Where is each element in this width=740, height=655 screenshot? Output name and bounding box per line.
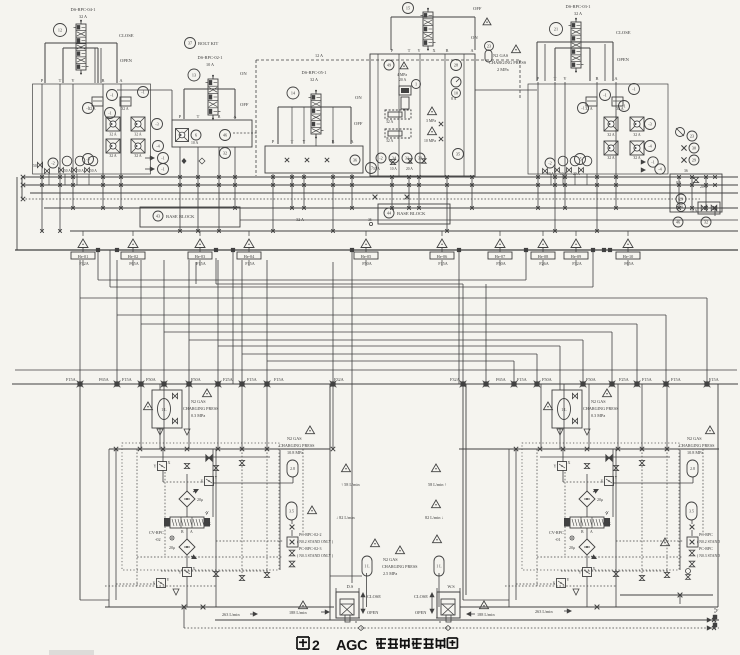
svg-text:F15A: F15A bbox=[438, 261, 448, 266]
svg-text:188 L/min: 188 L/min bbox=[477, 612, 495, 617]
svg-text:CHARGING PRESS: CHARGING PRESS bbox=[583, 406, 619, 411]
svg-text:3.5: 3.5 bbox=[689, 509, 694, 513]
svg-text:B: B bbox=[596, 76, 599, 81]
svg-text:F32A: F32A bbox=[572, 261, 582, 266]
svg-text:OFF: OFF bbox=[240, 102, 249, 107]
svg-text:32 A: 32 A bbox=[386, 120, 394, 124]
svg-text:43: 43 bbox=[156, 214, 160, 219]
svg-text:32 A: 32 A bbox=[310, 77, 318, 82]
svg-text:37: 37 bbox=[188, 41, 192, 46]
svg-text:20μ: 20μ bbox=[197, 497, 203, 502]
svg-text:10 MPa: 10 MPa bbox=[424, 139, 436, 143]
svg-text:OPEN: OPEN bbox=[617, 57, 630, 62]
svg-text:2.8: 2.8 bbox=[690, 467, 695, 471]
svg-text:-02: -02 bbox=[155, 537, 161, 542]
svg-text:F15A: F15A bbox=[709, 377, 720, 382]
svg-text:50 A: 50 A bbox=[77, 169, 84, 173]
svg-text:N2 GAS: N2 GAS bbox=[383, 557, 398, 562]
svg-text:10 A: 10 A bbox=[206, 62, 214, 67]
svg-text:F15A: F15A bbox=[517, 377, 528, 382]
svg-text:F15A: F15A bbox=[274, 377, 285, 382]
svg-text:31: 31 bbox=[405, 156, 409, 161]
svg-text:F26A: F26A bbox=[539, 261, 549, 266]
svg-text:3 MPa: 3 MPa bbox=[426, 119, 436, 123]
svg-text:15: 15 bbox=[406, 6, 410, 11]
svg-text:F15A: F15A bbox=[247, 377, 258, 382]
svg-text:32 A: 32 A bbox=[296, 217, 304, 222]
svg-text:N2 GAS: N2 GAS bbox=[191, 399, 206, 404]
svg-text:OPEN: OPEN bbox=[120, 58, 133, 63]
svg-text:↓ 82 L/min: ↓ 82 L/min bbox=[336, 515, 356, 520]
svg-text:F50A: F50A bbox=[146, 377, 157, 382]
svg-text:2.5 MPa: 2.5 MPa bbox=[383, 571, 397, 576]
svg-text:36: 36 bbox=[684, 169, 688, 173]
svg-text:10 A: 10 A bbox=[191, 141, 199, 145]
svg-text:50: 50 bbox=[33, 164, 37, 168]
svg-text:-1: -1 bbox=[108, 111, 112, 116]
svg-text:BASE BLOCK: BASE BLOCK bbox=[397, 211, 426, 216]
svg-text:12 A: 12 A bbox=[315, 53, 323, 58]
svg-text:PC-RPC: PC-RPC bbox=[699, 546, 713, 551]
svg-text:F50A: F50A bbox=[586, 377, 597, 382]
svg-text:He-04: He-04 bbox=[244, 254, 255, 259]
svg-text:32: 32 bbox=[223, 151, 227, 156]
svg-text:X: X bbox=[201, 479, 204, 484]
svg-text:B: B bbox=[446, 48, 449, 53]
svg-text:CHARGING PRESS: CHARGING PRESS bbox=[489, 60, 527, 65]
svg-text:188 L/min: 188 L/min bbox=[289, 610, 307, 615]
svg-text:6: 6 bbox=[195, 133, 197, 138]
svg-text:OFF: OFF bbox=[354, 121, 363, 126]
svg-text:N2 GAS: N2 GAS bbox=[287, 436, 302, 441]
svg-text:-1: -1 bbox=[110, 93, 114, 98]
svg-text:32 A: 32 A bbox=[607, 156, 615, 160]
svg-text:49: 49 bbox=[387, 63, 391, 68]
svg-text:32 A: 32 A bbox=[616, 107, 624, 111]
svg-text:20μ: 20μ bbox=[169, 545, 175, 550]
svg-text:CLOSE: CLOSE bbox=[616, 30, 631, 35]
svg-text:32 A: 32 A bbox=[633, 133, 641, 137]
svg-text:20μ: 20μ bbox=[569, 545, 575, 550]
svg-text:F15A: F15A bbox=[671, 377, 682, 382]
svg-text:3.5: 3.5 bbox=[289, 509, 294, 513]
svg-text:F50A: F50A bbox=[496, 261, 506, 266]
svg-text:32 A: 32 A bbox=[585, 107, 593, 111]
svg-text:X: X bbox=[153, 581, 156, 586]
svg-text:X: X bbox=[553, 581, 556, 586]
svg-text:X: X bbox=[593, 566, 596, 571]
svg-text:-2: -2 bbox=[379, 156, 383, 161]
svg-text:B: B bbox=[218, 114, 221, 119]
svg-text:0.3 MPa: 0.3 MPa bbox=[591, 413, 605, 418]
svg-text:32 A: 32 A bbox=[109, 133, 117, 137]
svg-text:( N0.3 STAND: ( N0.3 STAND bbox=[697, 554, 720, 558]
svg-text:4 MPa: 4 MPa bbox=[397, 73, 407, 77]
svg-text:50 A: 50 A bbox=[373, 167, 380, 171]
svg-text:46: 46 bbox=[223, 133, 227, 138]
svg-text:10.8 MPa: 10.8 MPa bbox=[687, 450, 703, 455]
svg-text:He-07: He-07 bbox=[495, 254, 505, 259]
svg-text:Y: Y bbox=[606, 510, 609, 515]
svg-text:X: X bbox=[193, 566, 196, 571]
svg-text:20 A: 20 A bbox=[399, 78, 407, 82]
svg-text:BASE BLOCK: BASE BLOCK bbox=[166, 214, 195, 219]
svg-text:21: 21 bbox=[554, 27, 558, 32]
svg-text:CHARGING PRESS: CHARGING PRESS bbox=[679, 443, 715, 448]
svg-text:W.S: W.S bbox=[447, 584, 455, 589]
svg-text:-2: -2 bbox=[548, 161, 552, 166]
svg-text:A: A bbox=[590, 530, 593, 534]
svg-text:X: X bbox=[168, 460, 171, 465]
svg-text:CV-RPC: CV-RPC bbox=[549, 530, 564, 535]
svg-text:32 A: 32 A bbox=[109, 154, 117, 158]
svg-text:23: 23 bbox=[690, 134, 694, 139]
svg-text:13: 13 bbox=[192, 73, 196, 78]
svg-text:0.3 MPa: 0.3 MPa bbox=[191, 413, 205, 418]
svg-text:He-03: He-03 bbox=[195, 254, 205, 259]
svg-text:CLOSE: CLOSE bbox=[414, 594, 428, 599]
svg-text:50 A: 50 A bbox=[90, 169, 97, 173]
svg-text:F65A: F65A bbox=[624, 261, 634, 266]
svg-text:CV-RPC: CV-RPC bbox=[149, 530, 164, 535]
svg-text:DS-RPC-05-1: DS-RPC-05-1 bbox=[302, 70, 327, 75]
svg-text:10 A: 10 A bbox=[390, 167, 397, 171]
svg-text:F15A: F15A bbox=[642, 377, 653, 382]
svg-text:35: 35 bbox=[456, 152, 460, 157]
svg-text:Y: Y bbox=[206, 510, 209, 515]
svg-text:BOLT KIT: BOLT KIT bbox=[198, 41, 218, 46]
svg-text:( N0.2 STAND ONLY ): ( N0.2 STAND ONLY ) bbox=[297, 540, 334, 544]
svg-text:F25A: F25A bbox=[619, 377, 630, 382]
svg-text:CHARGING PRESS: CHARGING PRESS bbox=[279, 443, 315, 448]
svg-text:Y: Y bbox=[167, 577, 170, 582]
svg-text:-1: -1 bbox=[581, 106, 585, 111]
svg-text:36: 36 bbox=[368, 218, 372, 222]
svg-text:X: X bbox=[601, 479, 604, 484]
svg-text:CHARGING PRESS: CHARGING PRESS bbox=[183, 406, 219, 411]
svg-text:1: 1 bbox=[415, 82, 417, 87]
svg-text:Y: Y bbox=[567, 577, 570, 582]
svg-text:PC-RPC-02-2: PC-RPC-02-2 bbox=[299, 532, 321, 537]
svg-text:X: X bbox=[208, 521, 211, 526]
svg-text:He-06: He-06 bbox=[437, 254, 447, 259]
svg-text:OFF: OFF bbox=[473, 6, 482, 11]
svg-text:PC-RPC: PC-RPC bbox=[699, 532, 713, 537]
svg-text:30: 30 bbox=[418, 156, 422, 161]
svg-text:F15A: F15A bbox=[66, 377, 77, 382]
svg-text:Y: Y bbox=[579, 570, 582, 575]
svg-text:He-10: He-10 bbox=[623, 254, 633, 259]
svg-text:OPEN: OPEN bbox=[415, 610, 427, 615]
svg-text:32 A: 32 A bbox=[134, 133, 142, 137]
svg-text:N2 GAS: N2 GAS bbox=[591, 399, 606, 404]
svg-text:10: 10 bbox=[454, 91, 458, 96]
svg-text:F15A: F15A bbox=[196, 261, 206, 266]
svg-text:AGC: AGC bbox=[336, 638, 368, 654]
svg-text:1 L: 1 L bbox=[436, 564, 442, 568]
svg-text:32 A: 32 A bbox=[79, 14, 87, 19]
svg-text:( N0.2 STAND: ( N0.2 STAND bbox=[697, 540, 720, 544]
svg-text:20 A: 20 A bbox=[406, 167, 413, 171]
svg-text:T: T bbox=[197, 114, 200, 119]
svg-text:-1: -1 bbox=[141, 90, 145, 95]
svg-text:T: T bbox=[408, 48, 411, 53]
svg-text:32 A: 32 A bbox=[574, 11, 582, 16]
svg-text:20 A: 20 A bbox=[573, 172, 580, 176]
svg-text:58 L/min ↑: 58 L/min ↑ bbox=[428, 482, 447, 487]
svg-text:DS-RPC-04-1: DS-RPC-04-1 bbox=[71, 7, 96, 12]
svg-text:DS-RPC-02-1: DS-RPC-02-1 bbox=[198, 55, 223, 60]
svg-text:263 L/min: 263 L/min bbox=[222, 612, 240, 617]
svg-text:F32A: F32A bbox=[450, 377, 461, 382]
svg-text:32 A: 32 A bbox=[633, 156, 641, 160]
svg-text:50 A: 50 A bbox=[64, 169, 71, 173]
svg-text:30: 30 bbox=[692, 146, 696, 151]
svg-text:32 A: 32 A bbox=[88, 107, 96, 111]
svg-text:-1: -1 bbox=[603, 93, 607, 98]
svg-text:8 A: 8 A bbox=[451, 97, 457, 101]
svg-text:F25A: F25A bbox=[223, 377, 234, 382]
svg-text:PC-RPC-02-3: PC-RPC-02-3 bbox=[299, 546, 321, 551]
svg-text:28: 28 bbox=[454, 63, 458, 68]
svg-text:23: 23 bbox=[487, 44, 491, 49]
svg-text:-1: -1 bbox=[651, 160, 655, 165]
svg-text:10.8 MPa: 10.8 MPa bbox=[287, 450, 303, 455]
svg-text:F15A: F15A bbox=[245, 261, 255, 266]
svg-text:ON: ON bbox=[240, 71, 247, 76]
svg-text:Y: Y bbox=[554, 464, 557, 469]
svg-text:N2 GAS: N2 GAS bbox=[493, 53, 509, 58]
svg-text:12: 12 bbox=[58, 28, 62, 33]
svg-text:263 L/min: 263 L/min bbox=[535, 609, 553, 614]
svg-text:-1: -1 bbox=[161, 167, 165, 172]
svg-text:X: X bbox=[432, 48, 435, 53]
svg-text:CHARGING PRESS: CHARGING PRESS bbox=[382, 564, 418, 569]
svg-text:He-08: He-08 bbox=[538, 254, 548, 259]
svg-text:B: B bbox=[102, 78, 105, 83]
svg-text:X: X bbox=[608, 521, 611, 526]
svg-text:2: 2 bbox=[312, 637, 320, 653]
svg-text:A: A bbox=[470, 48, 473, 53]
svg-text:-1: -1 bbox=[161, 156, 165, 161]
svg-text:F65A: F65A bbox=[99, 377, 110, 382]
svg-text:2 MPa: 2 MPa bbox=[497, 67, 509, 72]
svg-text:OPEN: OPEN bbox=[367, 610, 379, 615]
svg-text:He-02: He-02 bbox=[128, 254, 138, 259]
svg-text:F65A: F65A bbox=[129, 261, 139, 266]
svg-text:32 A: 32 A bbox=[607, 133, 615, 137]
svg-text:A: A bbox=[190, 530, 193, 534]
svg-text:F32A: F32A bbox=[79, 261, 89, 266]
svg-text:Y: Y bbox=[154, 464, 157, 469]
svg-text:Y: Y bbox=[179, 570, 182, 575]
svg-text:He-05: He-05 bbox=[361, 254, 371, 259]
svg-text:F50A: F50A bbox=[542, 377, 553, 382]
svg-text:-2: -2 bbox=[51, 161, 55, 166]
svg-text:32 A: 32 A bbox=[134, 154, 142, 158]
svg-text:Y: Y bbox=[417, 48, 420, 53]
svg-text:F65A: F65A bbox=[496, 377, 507, 382]
svg-text:( N0.3 STAND ONLY ): ( N0.3 STAND ONLY ) bbox=[297, 554, 334, 558]
svg-text:CLOSE: CLOSE bbox=[119, 33, 134, 38]
svg-text:-01: -01 bbox=[555, 537, 561, 542]
svg-text:-3: -3 bbox=[648, 122, 652, 127]
svg-text:20μ: 20μ bbox=[597, 497, 603, 502]
svg-text:2.8: 2.8 bbox=[290, 467, 295, 471]
svg-text:F15A: F15A bbox=[122, 377, 133, 382]
svg-text:T: T bbox=[554, 76, 557, 81]
svg-text:ON: ON bbox=[355, 95, 362, 100]
svg-text:X: X bbox=[568, 460, 571, 465]
svg-text:32 A: 32 A bbox=[121, 107, 129, 111]
svg-text:36: 36 bbox=[353, 158, 357, 163]
svg-text:-3: -3 bbox=[155, 122, 159, 127]
svg-text:He-01: He-01 bbox=[78, 254, 88, 259]
svg-text:He-09: He-09 bbox=[571, 254, 581, 259]
svg-text:1 L: 1 L bbox=[364, 564, 370, 568]
svg-text:N2 GAS: N2 GAS bbox=[687, 436, 702, 441]
svg-text:-1: -1 bbox=[632, 87, 636, 92]
svg-text:82 L/min ↓: 82 L/min ↓ bbox=[425, 515, 444, 520]
svg-text:F50A: F50A bbox=[362, 261, 372, 266]
svg-text:CLOSE: CLOSE bbox=[367, 594, 381, 599]
svg-text:DS-RPC-03-1: DS-RPC-03-1 bbox=[566, 4, 591, 9]
svg-text:F50A: F50A bbox=[191, 377, 202, 382]
svg-text:29: 29 bbox=[692, 158, 696, 163]
svg-text:↑ 58 L/min: ↑ 58 L/min bbox=[341, 482, 361, 487]
svg-text:D.S: D.S bbox=[347, 584, 354, 589]
svg-text:T: T bbox=[59, 78, 62, 83]
svg-text:32 A: 32 A bbox=[386, 139, 394, 143]
